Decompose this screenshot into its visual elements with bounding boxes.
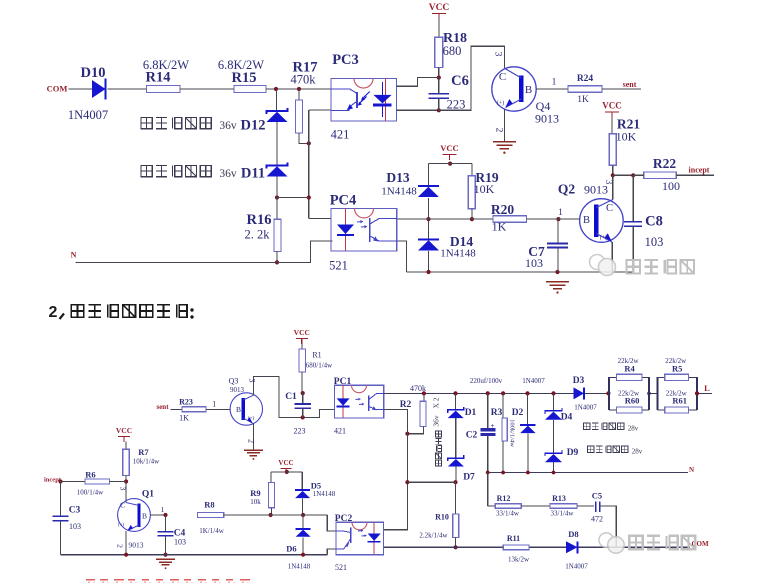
svg-text:421: 421	[334, 427, 346, 436]
svg-text:1: 1	[161, 505, 165, 514]
svg-text:B: B	[583, 215, 590, 226]
svg-text:R13: R13	[552, 494, 566, 503]
svg-text:incept: incept	[689, 166, 710, 175]
svg-text:(+): (+)	[118, 523, 124, 528]
svg-text:R14: R14	[146, 70, 171, 86]
svg-text:1N4007: 1N4007	[68, 108, 108, 122]
svg-text:R3: R3	[491, 408, 503, 418]
svg-text:R9: R9	[250, 488, 260, 498]
svg-text:Q3: Q3	[229, 377, 239, 386]
svg-text:PC2: PC2	[335, 514, 353, 524]
svg-text:C8: C8	[645, 214, 663, 230]
svg-text:10K: 10K	[474, 182, 495, 196]
svg-text:PC4: PC4	[330, 193, 357, 209]
svg-text:1: 1	[558, 208, 563, 218]
svg-text:Q2: Q2	[558, 182, 576, 197]
svg-text:R23: R23	[179, 398, 193, 407]
svg-text:33/1/4w: 33/1/4w	[496, 510, 520, 518]
svg-text:1N4148: 1N4148	[313, 490, 336, 498]
svg-text:VCC: VCC	[602, 101, 622, 111]
svg-text:36v: 36v	[219, 120, 237, 132]
svg-text:28v: 28v	[628, 425, 639, 433]
svg-text:521: 521	[329, 259, 348, 273]
svg-text:(+): (+)	[248, 417, 254, 422]
svg-text:1K: 1K	[492, 220, 507, 234]
svg-text:D5: D5	[311, 481, 321, 491]
svg-text:Q1: Q1	[142, 490, 154, 500]
svg-text:C1: C1	[285, 392, 297, 402]
svg-text:R16: R16	[247, 212, 272, 228]
svg-text:VCC: VCC	[116, 426, 132, 435]
svg-text:sent: sent	[623, 80, 637, 89]
svg-text:D4: D4	[561, 413, 573, 423]
svg-text:100/1/4w: 100/1/4w	[77, 489, 104, 497]
svg-text:(+): (+)	[497, 100, 504, 107]
svg-text:N: N	[71, 251, 77, 260]
svg-text:103: 103	[525, 256, 543, 270]
svg-text:223: 223	[294, 427, 306, 436]
svg-text:36v: 36v	[219, 168, 237, 180]
svg-text:R11: R11	[507, 534, 520, 543]
svg-text:10K: 10K	[616, 130, 637, 144]
svg-text:220uf/100v: 220uf/100v	[470, 377, 503, 385]
svg-text:D13: D13	[386, 170, 409, 185]
svg-text:R24: R24	[577, 74, 594, 84]
svg-text:R1: R1	[312, 351, 321, 360]
svg-text:X 2: X 2	[432, 397, 441, 408]
svg-text:9013: 9013	[230, 386, 245, 394]
svg-text:VCC: VCC	[294, 328, 310, 337]
svg-text:1N4148: 1N4148	[288, 563, 311, 571]
svg-text:10k: 10k	[250, 498, 261, 506]
svg-text:R4: R4	[624, 363, 635, 373]
svg-text:103: 103	[174, 538, 186, 547]
svg-text:2.2k/1/4w: 2.2k/1/4w	[419, 532, 448, 540]
svg-text:3: 3	[493, 52, 503, 57]
svg-text:2: 2	[116, 544, 125, 548]
svg-text:R22: R22	[653, 156, 676, 171]
svg-text:VCC: VCC	[429, 3, 450, 13]
svg-text:1K/1/4w: 1K/1/4w	[199, 527, 224, 535]
svg-text:R12: R12	[497, 494, 511, 503]
svg-text:R8: R8	[204, 500, 214, 510]
svg-text:1K: 1K	[577, 95, 589, 105]
svg-text:D10: D10	[81, 65, 106, 81]
svg-text:R2: R2	[400, 400, 412, 410]
svg-text:2. 2k: 2. 2k	[245, 228, 271, 242]
svg-text:36v: 36v	[432, 415, 441, 427]
svg-text:103: 103	[645, 235, 664, 249]
svg-text:D2: D2	[512, 408, 524, 418]
svg-text:1: 1	[212, 400, 216, 409]
svg-text:VCC: VCC	[440, 143, 458, 153]
svg-text:1K: 1K	[179, 414, 189, 423]
svg-text:9013: 9013	[129, 541, 144, 550]
svg-text:+: +	[491, 422, 495, 430]
svg-text:sent: sent	[156, 403, 169, 411]
svg-text:(+): (+)	[600, 234, 607, 241]
svg-text:B: B	[236, 405, 241, 414]
svg-text:1: 1	[552, 78, 557, 88]
svg-text:D3: D3	[573, 376, 585, 386]
svg-text:C: C	[606, 203, 613, 214]
svg-text:R6: R6	[85, 470, 95, 480]
svg-text:100k/1/4w: 100k/1/4w	[509, 419, 516, 447]
svg-text:R10: R10	[435, 513, 449, 522]
svg-text:B: B	[525, 84, 532, 96]
svg-text:680: 680	[443, 44, 462, 58]
svg-text:421: 421	[331, 128, 350, 142]
svg-text:2: 2	[49, 304, 58, 321]
svg-text:C2: C2	[466, 431, 478, 441]
svg-text:470k: 470k	[291, 73, 317, 87]
svg-text:L: L	[704, 383, 710, 393]
svg-text:D9: D9	[567, 448, 579, 458]
svg-text:R61: R61	[672, 396, 687, 406]
svg-text:680/1/4w: 680/1/4w	[306, 362, 333, 370]
svg-text:R20: R20	[491, 202, 514, 217]
svg-text:13k/2w: 13k/2w	[508, 556, 530, 564]
svg-text:R7: R7	[138, 447, 149, 457]
svg-text:C3: C3	[69, 506, 81, 516]
svg-text:COM: COM	[47, 84, 68, 94]
svg-text:472: 472	[591, 515, 603, 524]
svg-text:3: 3	[119, 487, 128, 491]
svg-text:D12: D12	[241, 118, 266, 134]
svg-text:D8: D8	[568, 529, 578, 539]
svg-text:100: 100	[662, 179, 680, 193]
svg-text:1N4007: 1N4007	[565, 563, 588, 571]
svg-text:521: 521	[335, 563, 347, 572]
svg-text:1N4148: 1N4148	[381, 186, 417, 198]
svg-text:103: 103	[69, 522, 81, 531]
svg-text:33/1/4w: 33/1/4w	[551, 510, 575, 518]
svg-text:C6: C6	[451, 73, 469, 89]
svg-text:B: B	[142, 512, 147, 521]
svg-text:1N4007: 1N4007	[574, 404, 597, 412]
svg-text:D7: D7	[463, 473, 475, 483]
svg-text:N: N	[689, 466, 694, 474]
svg-text:R5: R5	[672, 363, 682, 373]
svg-text:9013: 9013	[535, 112, 559, 126]
svg-text:28v: 28v	[632, 448, 643, 456]
svg-text:D6: D6	[286, 544, 296, 554]
svg-text:1N4148: 1N4148	[440, 248, 476, 260]
svg-text:2: 2	[247, 439, 256, 443]
svg-text:2: 2	[494, 128, 504, 133]
svg-text:PC3: PC3	[332, 52, 359, 68]
svg-text:1N4007: 1N4007	[522, 377, 545, 385]
svg-text:R60: R60	[625, 396, 640, 406]
svg-text:D1: D1	[465, 408, 477, 418]
svg-text:R15: R15	[232, 70, 257, 86]
svg-text:10k/1/4w: 10k/1/4w	[133, 458, 160, 466]
svg-text:223: 223	[447, 98, 466, 112]
svg-text:VCC: VCC	[278, 459, 293, 467]
svg-text:9013: 9013	[584, 183, 608, 197]
svg-text:C: C	[120, 501, 125, 510]
svg-text:C5: C5	[592, 491, 602, 501]
svg-text:C: C	[499, 71, 506, 83]
svg-text:D11: D11	[241, 166, 265, 182]
svg-text:3: 3	[248, 379, 257, 383]
